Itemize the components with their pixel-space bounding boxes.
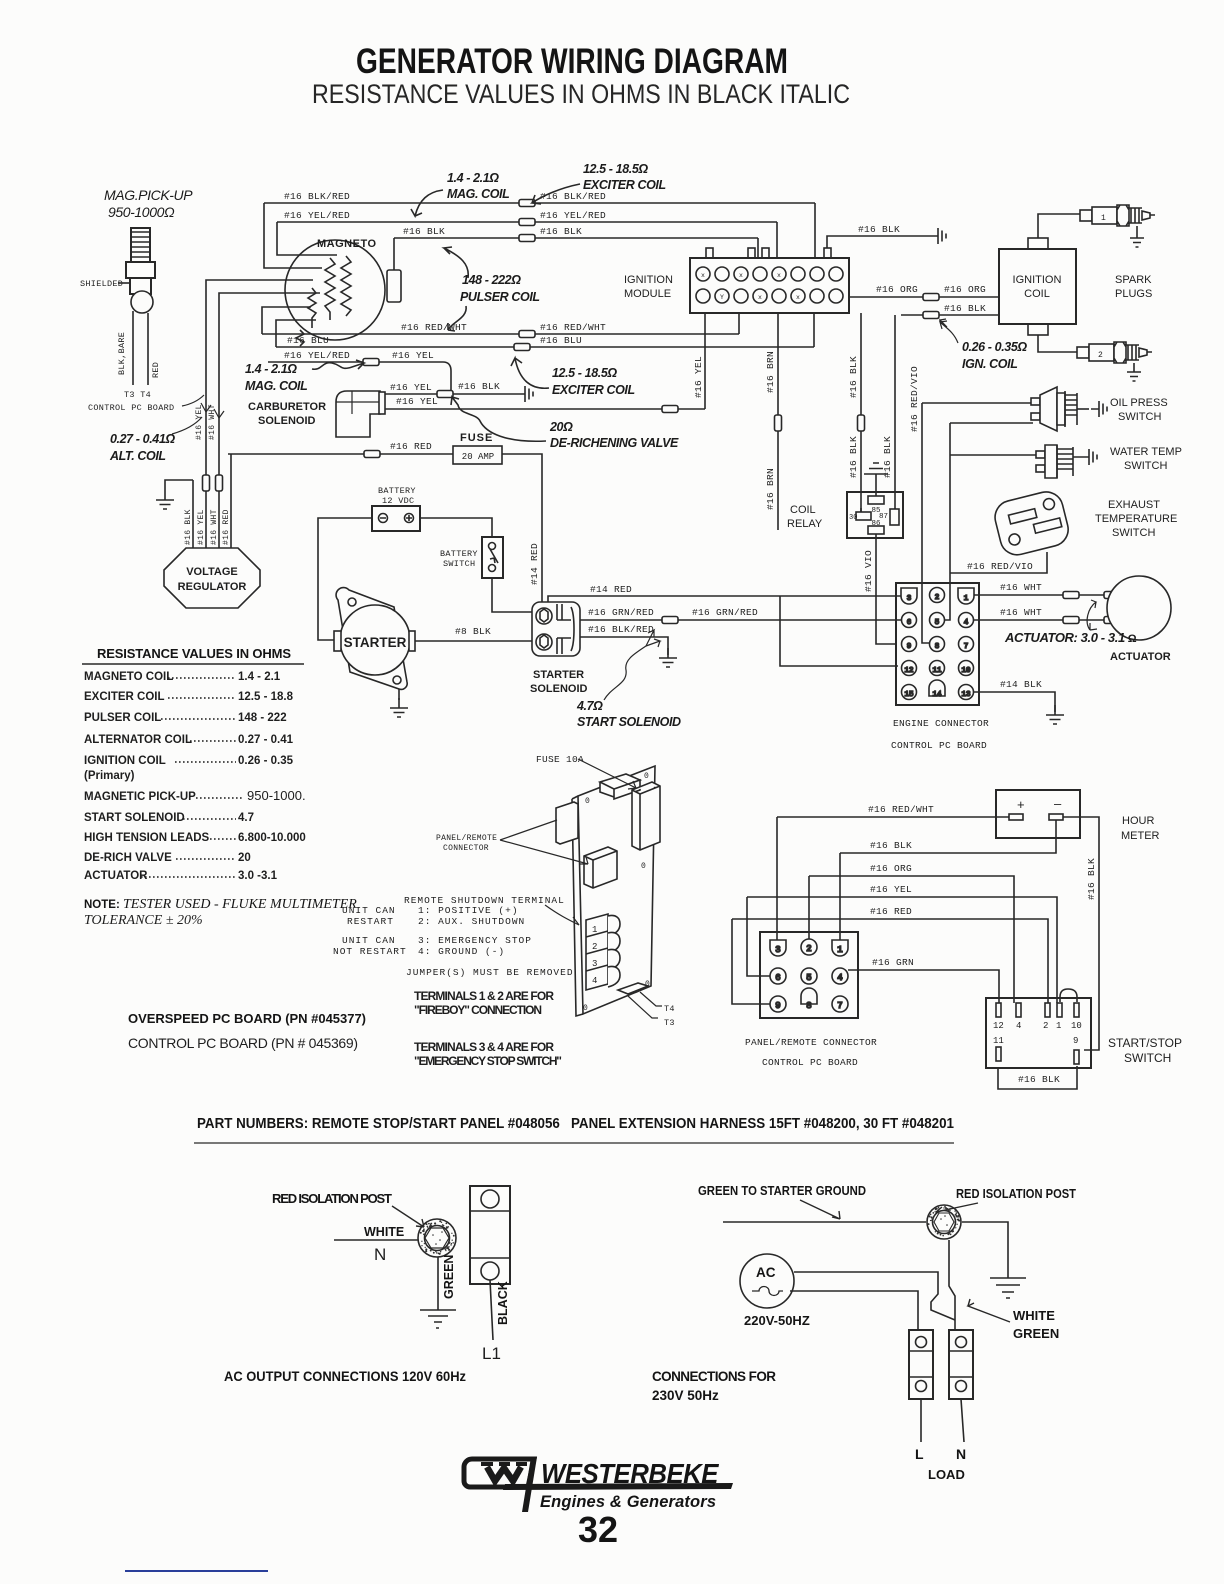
- svg-text:EXCITER COIL: EXCITER COIL: [552, 383, 635, 397]
- svg-text:BATTERY: BATTERY: [440, 549, 478, 559]
- svg-text:7: 7: [964, 643, 969, 651]
- svg-text:1: 1: [592, 925, 597, 935]
- svg-text:4: 4: [964, 619, 969, 627]
- svg-text:4: 4: [1016, 1021, 1021, 1031]
- svg-text:86: 86: [871, 520, 881, 528]
- svg-text:3: EMERGENCY STOP: 3: EMERGENCY STOP: [418, 935, 532, 946]
- svg-text:L: L: [915, 1446, 924, 1462]
- svg-text:1: 1: [964, 595, 969, 603]
- svg-text:#16 YEL/RED: #16 YEL/RED: [284, 350, 350, 361]
- svg-text:#16 RED: #16 RED: [870, 906, 912, 917]
- svg-text:RED: RED: [151, 362, 161, 378]
- svg-text:#16 RED/WHT: #16 RED/WHT: [401, 322, 467, 333]
- svg-text:#16 BLK: #16 BLK: [848, 356, 859, 398]
- svg-text:#16 BLK: #16 BLK: [848, 436, 859, 478]
- svg-text:11: 11: [993, 1036, 1004, 1046]
- svg-text:CONTROL PC BOARD: CONTROL PC BOARD: [891, 740, 987, 751]
- svg-text:PART NUMBERS: REMOTE STOP/STAR: PART NUMBERS: REMOTE STOP/START PANEL #0…: [197, 1116, 954, 1132]
- svg-text:REGULATOR: REGULATOR: [178, 581, 247, 593]
- svg-text:PANEL/REMOTE: PANEL/REMOTE: [436, 834, 497, 843]
- svg-text:SWITCH: SWITCH: [1112, 527, 1155, 539]
- svg-text:WATER TEMP: WATER TEMP: [1110, 446, 1182, 458]
- svg-text:TOLERANCE ± 20%: TOLERANCE ± 20%: [84, 913, 203, 928]
- svg-text:#16 RED: #16 RED: [222, 509, 231, 545]
- svg-text:x: x: [796, 294, 800, 301]
- svg-text:TERMINALS 1 & 2 ARE FOR: TERMINALS 1 & 2 ARE FOR: [414, 989, 554, 1003]
- svg-text:OIL PRESS: OIL PRESS: [1110, 397, 1168, 409]
- svg-text:COIL: COIL: [1024, 288, 1050, 300]
- svg-text:GREEN TO STARTER GROUND: GREEN TO STARTER GROUND: [698, 1183, 866, 1198]
- svg-text:8: 8: [806, 1001, 811, 1011]
- svg-text:MODULE: MODULE: [624, 288, 671, 300]
- svg-text:EXHAUST: EXHAUST: [1108, 499, 1160, 511]
- svg-text:RESISTANCE VALUES IN OHMS IN B: RESISTANCE VALUES IN OHMS IN BLACK ITALI…: [312, 79, 850, 109]
- svg-text:#16 BLK: #16 BLK: [184, 509, 193, 545]
- svg-text:20 AMP: 20 AMP: [462, 452, 494, 462]
- svg-text:MAGNETIC PICK-UP950-1000.: MAGNETIC PICK-UP950-1000.: [84, 788, 306, 803]
- svg-text:#8 BLK: #8 BLK: [455, 626, 491, 637]
- svg-text:DE-RICH VALVE20: DE-RICH VALVE20: [84, 852, 251, 864]
- svg-text:–: –: [1054, 796, 1062, 811]
- svg-text:GREEN: GREEN: [442, 1255, 456, 1299]
- svg-text:3: 3: [907, 595, 912, 603]
- svg-text:IGN. COIL: IGN. COIL: [962, 357, 1017, 371]
- svg-text:ACTUATOR: ACTUATOR: [1110, 651, 1171, 663]
- svg-text:#16 BLU: #16 BLU: [540, 335, 582, 346]
- svg-text:"FIREBOY" CONNECTION: "FIREBOY" CONNECTION: [414, 1003, 542, 1017]
- svg-text:4: 4: [837, 973, 842, 983]
- svg-text:FUSE: FUSE: [460, 432, 493, 444]
- svg-text:#16 ORG: #16 ORG: [876, 284, 918, 295]
- svg-text:14: 14: [932, 691, 942, 699]
- svg-text:#16 YEL/RED: #16 YEL/RED: [540, 210, 606, 221]
- svg-text:20Ω: 20Ω: [549, 420, 573, 434]
- svg-text:PLUGS: PLUGS: [1115, 288, 1152, 300]
- svg-text:RESISTANCE VALUES IN OHMS: RESISTANCE VALUES IN OHMS: [97, 646, 291, 661]
- svg-text:#16 BLK: #16 BLK: [870, 840, 912, 851]
- svg-text:T3: T3: [664, 1018, 675, 1028]
- svg-text:Y: Y: [720, 294, 724, 301]
- svg-text:1.4 - 2.1Ω: 1.4 - 2.1Ω: [447, 171, 499, 185]
- svg-text:#16 RED/WHT: #16 RED/WHT: [868, 804, 934, 815]
- svg-text:10: 10: [1071, 1021, 1082, 1031]
- svg-text:GREEN: GREEN: [1013, 1326, 1059, 1341]
- svg-text:#16 BRN: #16 BRN: [765, 351, 776, 393]
- svg-text:6: 6: [775, 973, 780, 983]
- svg-text:#16 BLK: #16 BLK: [458, 381, 500, 392]
- svg-text:AC OUTPUT CONNECTIONS 120V 60H: AC OUTPUT CONNECTIONS 120V 60Hz: [224, 1368, 466, 1384]
- svg-text:MAG. COIL: MAG. COIL: [447, 187, 509, 201]
- svg-text:ACTUATOR3.0 -3.1: ACTUATOR3.0 -3.1: [84, 870, 278, 882]
- svg-text:12.5 - 18.5Ω: 12.5 - 18.5Ω: [583, 162, 648, 176]
- svg-text:#16 GRN/RED: #16 GRN/RED: [692, 607, 758, 618]
- svg-text:CONTROL PC BOARD (PN # 045369): CONTROL PC BOARD (PN # 045369): [128, 1035, 358, 1051]
- svg-text:12: 12: [904, 667, 913, 675]
- svg-text:#16 YEL: #16 YEL: [197, 509, 206, 545]
- svg-text:WHITE: WHITE: [364, 1225, 404, 1239]
- svg-text:#16 WHT: #16 WHT: [1000, 607, 1042, 618]
- svg-text:GENERATOR WIRING DIAGRAM: GENERATOR WIRING DIAGRAM: [356, 42, 788, 81]
- svg-text:PANEL/REMOTE CONNECTOR: PANEL/REMOTE CONNECTOR: [745, 1037, 877, 1048]
- svg-text:2: AUX. SHUTDOWN: 2: AUX. SHUTDOWN: [418, 916, 525, 927]
- svg-text:8: 8: [935, 643, 940, 651]
- svg-text:#16 BLK/RED: #16 BLK/RED: [284, 191, 350, 202]
- svg-text:x: x: [739, 272, 743, 279]
- svg-text:HIGH TENSION LEADS6.800-10.000: HIGH TENSION LEADS6.800-10.000: [84, 832, 306, 844]
- svg-text:2: 2: [592, 942, 597, 952]
- svg-text:EXCITER COIL12.5 - 18.8: EXCITER COIL12.5 - 18.8: [84, 691, 294, 703]
- svg-text:12: 12: [993, 1021, 1004, 1031]
- svg-text:CONTROL PC BOARD: CONTROL PC BOARD: [762, 1057, 858, 1068]
- svg-text:#16 BLK: #16 BLK: [944, 303, 986, 314]
- svg-text:STARTER: STARTER: [344, 635, 407, 650]
- svg-text:START/STOP: START/STOP: [1108, 1036, 1182, 1050]
- svg-text:#16 YEL: #16 YEL: [396, 396, 438, 407]
- svg-text:2: 2: [1098, 351, 1103, 360]
- svg-text:(Primary): (Primary): [84, 770, 135, 782]
- svg-text:#16 YEL: #16 YEL: [693, 356, 704, 398]
- svg-text:#16 BLU: #16 BLU: [287, 335, 329, 346]
- svg-text:T3 T4: T3 T4: [124, 390, 151, 400]
- svg-text:9: 9: [907, 643, 912, 651]
- svg-text:UNIT CAN: UNIT CAN: [342, 905, 396, 916]
- svg-text:5: 5: [806, 973, 811, 983]
- svg-text:VOLTAGE: VOLTAGE: [186, 566, 238, 578]
- svg-text:T4: T4: [664, 1004, 675, 1014]
- svg-text:#16 BLK: #16 BLK: [882, 436, 893, 478]
- svg-text:9: 9: [775, 1001, 780, 1011]
- svg-text:N: N: [956, 1446, 966, 1462]
- svg-text:#16 BLK: #16 BLK: [1086, 858, 1097, 900]
- svg-text:ENGINE CONNECTOR: ENGINE CONNECTOR: [893, 718, 989, 729]
- svg-text:#16 BLK: #16 BLK: [1018, 1074, 1060, 1085]
- svg-text:7: 7: [837, 1001, 842, 1011]
- svg-text:CONTROL PC BOARD: CONTROL PC BOARD: [88, 403, 174, 413]
- svg-text:#16 BLK: #16 BLK: [540, 226, 582, 237]
- svg-text:13: 13: [961, 691, 971, 699]
- svg-text:#16 RED/VIO: #16 RED/VIO: [909, 366, 920, 432]
- svg-text:0.27 - 0.41Ω: 0.27 - 0.41Ω: [110, 432, 175, 446]
- svg-text:#16 RED: #16 RED: [390, 441, 432, 452]
- svg-text:x: x: [758, 294, 762, 301]
- svg-text:SWITCH: SWITCH: [1124, 1051, 1171, 1065]
- svg-text:RED ISOLATION POST: RED ISOLATION POST: [956, 1186, 1076, 1201]
- svg-text:RED ISOLATION POST: RED ISOLATION POST: [272, 1191, 392, 1206]
- svg-text:UNIT CAN: UNIT CAN: [342, 935, 396, 946]
- svg-text:3: 3: [775, 945, 780, 955]
- svg-text:2: 2: [806, 944, 811, 954]
- svg-text:RELAY: RELAY: [787, 518, 823, 530]
- svg-text:WHITE: WHITE: [1013, 1308, 1055, 1323]
- svg-text:SWITCH: SWITCH: [443, 559, 475, 569]
- svg-text:#16 YEL: #16 YEL: [195, 404, 204, 440]
- svg-text:x: x: [777, 272, 781, 279]
- svg-text:IGNITION: IGNITION: [1013, 274, 1062, 286]
- svg-text:1: 1: [837, 945, 842, 955]
- svg-text:SWITCH: SWITCH: [1124, 460, 1167, 472]
- svg-text:#16 YEL: #16 YEL: [392, 350, 434, 361]
- svg-text:SHIELDED: SHIELDED: [80, 279, 123, 289]
- svg-text:RESTART: RESTART: [347, 916, 394, 927]
- svg-text:1.4 - 2.1Ω: 1.4 - 2.1Ω: [245, 362, 297, 376]
- svg-text:#16 YEL: #16 YEL: [390, 382, 432, 393]
- svg-text:MAGNETO COIL1.4 - 2.1: MAGNETO COIL1.4 - 2.1: [84, 671, 281, 683]
- svg-text:x: x: [701, 272, 705, 279]
- svg-text:ACTUATOR: 3.0 - 3.1Ω: ACTUATOR: 3.0 - 3.1Ω: [1004, 630, 1137, 645]
- svg-text:SOLENOID: SOLENOID: [530, 683, 588, 695]
- svg-text:IGNITION COIL0.26 - 0.35: IGNITION COIL0.26 - 0.35: [84, 755, 294, 767]
- svg-text:0: 0: [585, 797, 590, 806]
- svg-text:ALTERNATOR COIL0.27 - 0.41: ALTERNATOR COIL0.27 - 0.41: [84, 734, 294, 746]
- svg-text:STARTER: STARTER: [533, 669, 584, 681]
- svg-text:BLACK: BLACK: [496, 1281, 510, 1325]
- svg-text:START SOLENOID: START SOLENOID: [577, 715, 681, 729]
- svg-text:NOTE: TESTER USED - FLUKE MULT: NOTE: TESTER USED - FLUKE MULTIMETER: [84, 897, 357, 912]
- svg-text:#16 WHT: #16 WHT: [208, 404, 217, 440]
- svg-text:30: 30: [849, 514, 857, 522]
- svg-text:2: 2: [1043, 1021, 1048, 1031]
- svg-text:CONNECTIONS FOR: CONNECTIONS FOR: [652, 1369, 776, 1384]
- svg-text:6: 6: [907, 619, 912, 627]
- svg-text:PULSER COIL148 - 222: PULSER COIL148 - 222: [84, 712, 287, 724]
- svg-text:BATTERY: BATTERY: [378, 486, 416, 496]
- svg-text:START SOLENOID4.7: START SOLENOID4.7: [84, 812, 254, 824]
- svg-text:MAG.PICK-UP: MAG.PICK-UP: [104, 187, 193, 203]
- svg-text:#14 BLK: #14 BLK: [1000, 679, 1042, 690]
- svg-text:1: POSITIVE (+): 1: POSITIVE (+): [418, 905, 519, 916]
- svg-text:#16 ORG: #16 ORG: [944, 284, 986, 295]
- svg-text:15: 15: [904, 691, 914, 699]
- svg-text:+: +: [1017, 797, 1025, 812]
- svg-text:0: 0: [583, 1004, 588, 1013]
- svg-text:SWITCH: SWITCH: [1118, 411, 1161, 423]
- svg-text:0.26 - 0.35Ω: 0.26 - 0.35Ω: [962, 340, 1027, 354]
- svg-text:L1: L1: [482, 1344, 501, 1363]
- svg-text:#16 VIO: #16 VIO: [863, 550, 874, 592]
- svg-text:#16 WHT: #16 WHT: [1000, 582, 1042, 593]
- svg-text:220V-50HZ: 220V-50HZ: [744, 1313, 810, 1328]
- svg-text:AC: AC: [756, 1265, 776, 1280]
- svg-text:COIL: COIL: [790, 504, 816, 516]
- svg-text:#14 RED: #14 RED: [529, 543, 540, 585]
- svg-text:#16 GRN: #16 GRN: [872, 957, 914, 968]
- svg-text:0: 0: [644, 772, 649, 781]
- svg-text:FUSE 10A: FUSE 10A: [536, 754, 584, 765]
- svg-text:TERMINALS 3 & 4 ARE FOR: TERMINALS 3 & 4 ARE FOR: [414, 1040, 554, 1054]
- svg-text:1: 1: [1056, 1021, 1061, 1031]
- svg-text:12 VDC: 12 VDC: [382, 496, 414, 506]
- svg-text:PULSER COIL: PULSER COIL: [460, 290, 540, 304]
- svg-text:#16 BLK: #16 BLK: [858, 224, 900, 235]
- svg-text:4: GROUND (-): 4: GROUND (-): [418, 946, 505, 957]
- svg-text:#16 WHT: #16 WHT: [210, 509, 219, 545]
- svg-text:4: 4: [592, 976, 597, 986]
- svg-text:Engines & Generators: Engines & Generators: [540, 1493, 716, 1511]
- svg-text:IGNITION: IGNITION: [624, 274, 673, 286]
- svg-text:0: 0: [641, 862, 646, 871]
- svg-text:4.7Ω: 4.7Ω: [576, 699, 603, 713]
- svg-text:11: 11: [932, 667, 942, 675]
- svg-text:12.5 - 18.5Ω: 12.5 - 18.5Ω: [552, 366, 617, 380]
- svg-text:950-1000Ω: 950-1000Ω: [108, 204, 175, 220]
- svg-text:3: 3: [592, 959, 597, 969]
- svg-text:5: 5: [935, 619, 940, 627]
- svg-text:TEMPERATURE: TEMPERATURE: [1095, 513, 1177, 525]
- svg-text:JUMPER(S) MUST BE REMOVED: JUMPER(S) MUST BE REMOVED: [406, 967, 574, 978]
- svg-text:10: 10: [961, 667, 971, 675]
- svg-text:EXCITER COIL: EXCITER COIL: [583, 178, 666, 192]
- svg-text:"EMERGENCY STOP SWITCH": "EMERGENCY STOP SWITCH": [414, 1054, 562, 1068]
- svg-text:ALT. COIL: ALT. COIL: [109, 449, 166, 463]
- svg-text:9: 9: [1073, 1036, 1078, 1046]
- svg-text:MAGNETO: MAGNETO: [317, 238, 377, 250]
- svg-text:1: 1: [1101, 214, 1106, 223]
- svg-text:#16 ORG: #16 ORG: [870, 863, 912, 874]
- svg-text:32: 32: [578, 1509, 618, 1550]
- svg-text:2: 2: [935, 594, 940, 602]
- svg-text:#16 YEL/RED: #16 YEL/RED: [284, 210, 350, 221]
- svg-text:BLK,BARE: BLK,BARE: [117, 332, 127, 375]
- svg-text:OVERSPEED PC BOARD (PN #045377: OVERSPEED PC BOARD (PN #045377): [128, 1011, 366, 1026]
- svg-text:HOUR: HOUR: [1122, 815, 1154, 827]
- svg-text:MAG. COIL: MAG. COIL: [245, 379, 307, 393]
- svg-text:#16 RED/VIO: #16 RED/VIO: [967, 561, 1033, 572]
- svg-text:#14 RED: #14 RED: [590, 584, 632, 595]
- svg-text:#16 BLK: #16 BLK: [403, 226, 445, 237]
- svg-text:SOLENOID: SOLENOID: [258, 415, 316, 427]
- svg-text:#16 BLK/RED: #16 BLK/RED: [588, 624, 654, 635]
- svg-text:NOT RESTART: NOT RESTART: [333, 946, 407, 957]
- svg-text:SPARK: SPARK: [1115, 274, 1152, 286]
- svg-text:#16 BRN: #16 BRN: [765, 468, 776, 510]
- svg-text:METER: METER: [1121, 830, 1160, 842]
- svg-text:CARBURETOR: CARBURETOR: [248, 401, 326, 413]
- svg-text:DE-RICHENING VALVE: DE-RICHENING VALVE: [550, 436, 679, 450]
- svg-text:#16 YEL: #16 YEL: [870, 884, 912, 895]
- svg-text:#16 GRN/RED: #16 GRN/RED: [588, 607, 654, 618]
- svg-text:#16 RED/WHT: #16 RED/WHT: [540, 322, 606, 333]
- svg-text:230V 50Hz: 230V 50Hz: [652, 1388, 719, 1403]
- svg-text:148 - 222Ω: 148 - 222Ω: [462, 273, 521, 287]
- svg-text:N: N: [374, 1245, 386, 1264]
- svg-text:LOAD: LOAD: [928, 1467, 965, 1482]
- svg-text:CONNECTOR: CONNECTOR: [443, 844, 489, 853]
